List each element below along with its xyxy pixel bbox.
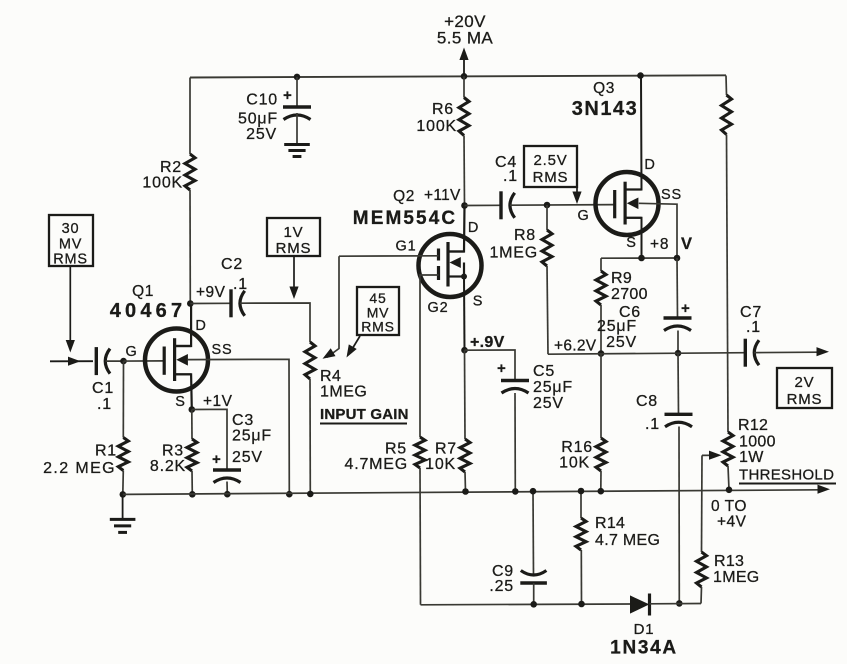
svg-text:+: + [681,300,691,317]
wire: drain node to C4 [465,204,502,206]
junction: Q1 source node [189,406,196,413]
resistor R7 [460,439,470,472]
svg-text:C2: C2 [221,256,243,273]
svg-text:1V: 1V [284,224,304,241]
wire: R2 to Q1 drain node [189,190,191,304]
wire: Q1 drain lead [175,304,192,347]
label +6.2V [554,338,597,355]
junction: Q2 source node +.9V [461,347,468,354]
svg-text:30: 30 [62,221,80,237]
junction: Q3 source [638,255,645,262]
wire: R12 wiper [702,451,722,460]
label R3 [150,443,186,476]
svg-text:D: D [644,157,655,173]
label Q3 pin SS [661,187,682,203]
label Q2 pin G1 [396,239,417,255]
transistor Q1 symbol [145,329,208,392]
capacitor C6 [664,318,692,353]
svg-text:C1: C1 [92,380,114,397]
label C6 polarity + [681,300,691,317]
label R7 [425,441,457,474]
wire: detector line right segment [650,603,702,605]
svg-text:25V: 25V [533,395,564,412]
arrow from 2.5V RMS box to Q3 gate [572,187,581,204]
svg-text:2V: 2V [795,374,815,391]
label +20V [444,12,486,31]
junction: ground rail at R3 [189,491,196,498]
wire: +20V supply rail [190,75,726,77]
svg-text:.1: .1 [233,276,248,293]
wire: source node to C3 [192,409,227,470]
resistor R2 [185,154,195,190]
svg-text:INPUT GAIN: INPUT GAIN [320,406,409,423]
wire: detector line left segment [421,603,631,606]
wire: R13 to detector wire [700,587,703,604]
capacitor C10 [283,77,311,144]
label Q3 pin G [577,208,589,224]
label C9 value [489,563,514,595]
label R12 [738,417,776,466]
svg-text:4.7MEG: 4.7MEG [345,456,409,473]
label C10 polarity + [283,87,293,104]
wire: +6.2V down to R16 [600,354,602,438]
resistor R1 [118,438,128,471]
svg-text:C5: C5 [533,363,555,380]
label C10 value [238,92,278,144]
wire: tap down to R8 [546,205,548,230]
junction: Q2 drain node [461,202,468,209]
wire: source row down to C6 [676,258,679,318]
wire: C7 to output with arrow [754,347,829,356]
wire: source node to R3 [191,410,193,440]
junction: Q1 drain node [187,300,194,307]
svg-text:R12: R12 [738,417,768,434]
wire: source row down to R9 [600,258,602,271]
label THRESHOLD [739,467,836,484]
label R8 [489,227,538,262]
svg-text:RMS: RMS [53,252,88,268]
capacitor C8 [665,414,693,603]
resistor R3 [187,439,197,471]
junction: ground rail at SS [286,491,293,498]
label Q1 part number 40467 [110,300,187,322]
wire: rail down to R6 [463,76,465,97]
label R5 [345,441,409,474]
svg-text:+: + [212,451,222,468]
svg-text:+9V: +9V [196,284,226,301]
svg-text:R8: R8 [514,227,536,244]
svg-text:S: S [626,235,636,251]
wire: +6.2V down to C8 [677,353,680,414]
svg-text:S: S [175,394,185,410]
label +11V [424,187,461,204]
label R16 [559,439,593,472]
capacitor C7 [745,339,759,367]
resistor R8 [542,230,552,266]
junction: detector wire at R14 [578,601,585,608]
wire: Q2 gate2 lead [420,275,439,437]
svg-text:50μF: 50μF [238,111,278,128]
wire: R4 to ground rail [309,379,311,494]
svg-text:25μF: 25μF [533,379,573,396]
label C3 value [232,412,272,466]
annotation box 45 MV RMS [357,287,399,335]
power arrow +20V supply [459,48,468,77]
junction: Q1 gate node [120,358,127,365]
svg-text:1W: 1W [739,449,764,466]
label +.9V [470,334,505,351]
wire: Q3 substrate SS lead [639,203,677,258]
svg-text:RMS: RMS [533,169,569,186]
svg-text:40467: 40467 [110,300,187,322]
label R14 [595,515,660,549]
label Q1 pin SS [212,342,233,358]
svg-text:25V: 25V [246,126,277,143]
resistor R14 [576,518,586,550]
transistor Q2 symbol [419,234,482,297]
label 0 TO +4V [711,498,747,531]
svg-text:C8: C8 [636,393,658,410]
resistor R11 (unlabeled, top right) [722,95,732,135]
svg-text:0 TO: 0 TO [711,498,747,515]
svg-text:G2: G2 [428,300,449,316]
svg-text:R7: R7 [435,441,457,458]
label D1 part number 1N34A [610,638,678,659]
wire: Q3 source lead [625,218,641,258]
label C6 value [597,304,641,351]
wire: R12 to ground rail [728,466,729,490]
potentiometer R4 [305,342,315,379]
wire: C4 to Q3 gate [510,204,615,207]
wire: Q2 gate1 lead [339,255,439,257]
label C7 value [740,304,762,336]
diode D1 [630,594,650,616]
label 5.5 MA [437,29,494,48]
svg-text:10K: 10K [559,455,590,472]
arrow from 30 MV RMS box to input [66,266,75,353]
svg-text:3N143: 3N143 [572,98,638,120]
capacitor C5 [501,381,529,492]
label Q2 pin S [473,294,483,310]
svg-text:2.2 MEG: 2.2 MEG [43,460,116,477]
svg-text:4.7 MEG: 4.7 MEG [595,532,660,549]
svg-text:V: V [681,235,693,253]
junction: ground rail at R14 [578,488,585,495]
svg-text:5.5 MA: 5.5 MA [437,29,494,48]
wire: R12 wiper down to R13 [701,455,704,552]
svg-text:+8: +8 [650,236,669,253]
wire: right branch down to R12 [727,135,729,433]
svg-text:R9: R9 [611,270,632,287]
svg-text:SS: SS [661,187,682,203]
label INPUT GAIN [320,406,409,424]
wire: gate node down to R1 [122,361,124,437]
wire: source node down to R7 [464,350,467,439]
svg-text:R6: R6 [432,101,454,118]
wire: R14 to detector wire [580,550,582,604]
svg-text:10K: 10K [425,456,456,473]
svg-text:+: + [283,87,293,104]
junction: ground rail at R16 [598,488,605,495]
wire: +6.2V rail to C7 [548,353,745,355]
svg-text:.1: .1 [503,168,518,185]
svg-text:100K: 100K [416,118,457,135]
label R13 [713,553,760,586]
capacitor C2 [231,289,245,317]
wire: Q1 substrate SS to ground rail [188,359,289,494]
wire: drain node to C2 [190,302,231,304]
svg-text:R4: R4 [320,368,341,385]
label R9 [611,270,648,303]
svg-text:R14: R14 [595,515,625,532]
svg-text:C10: C10 [246,92,278,109]
junction: detector wire at C9 [530,601,537,608]
svg-text:SS: SS [212,342,233,358]
wire: signal input with arrow [50,357,93,366]
junction: rail and +20V feed [461,73,468,80]
wire: R3 to ground rail [191,471,193,494]
svg-text:R13: R13 [714,553,744,570]
svg-text:C3: C3 [232,412,254,429]
svg-text:1MEG: 1MEG [713,569,760,586]
label R1 [43,443,117,478]
wire: Q2 drain lead [448,206,465,252]
annotation box 30 MV RMS [49,215,93,268]
svg-text:25μF: 25μF [597,318,637,335]
label Q3 part number 3N143 [572,98,638,120]
svg-text:D: D [195,318,206,334]
junction: ground rail at R4 [307,491,314,498]
ground symbol (main) [110,494,136,532]
junction: source row and C6 [674,255,681,262]
svg-text:8.2K: 8.2K [150,458,186,475]
capacitor C3 [213,470,241,494]
svg-text:1MEG: 1MEG [320,384,367,401]
resistor R5 [415,437,425,468]
wire: Q3 source node row [601,257,677,259]
svg-text:25μF: 25μF [232,428,272,445]
svg-text:1MEG: 1MEG [489,245,538,262]
label D1 [634,621,655,638]
svg-text:25V: 25V [232,449,263,466]
junction: ground rail at C9 [530,488,537,495]
svg-text:R3: R3 [162,443,184,460]
resistor R6 [459,98,469,136]
junction: ground rail at C3 [224,491,231,498]
label +9V [196,284,226,301]
svg-text:1N34A: 1N34A [610,638,678,659]
resistor R16 [596,438,606,471]
svg-text:+6.2V: +6.2V [554,338,597,355]
svg-text:G: G [577,208,589,224]
junction: ground rail at R12 [726,487,733,494]
resistor R9 [596,271,606,305]
label C5 polarity + [497,360,507,377]
svg-text:R16: R16 [561,439,593,456]
wire: source node to C5 [465,350,516,381]
label R2 [142,159,183,192]
label C5 value [533,363,573,412]
capacitor C1 [96,347,110,375]
label R4 [320,368,367,401]
junction: ground rail at R1 [120,491,127,498]
svg-text:MEM554C: MEM554C [353,208,457,229]
label Q1 [132,283,154,300]
annotation box 2V RMS [777,368,832,408]
svg-text:25V: 25V [606,334,637,351]
svg-text:MV: MV [59,237,82,253]
svg-text:RMS: RMS [276,240,312,257]
wire: R6 to Q2 drain node [463,136,466,206]
label C4 value [495,154,518,185]
junction: detector wire at C8 [676,600,683,607]
svg-text:D1: D1 [634,621,655,638]
arrow from 45 MV RMS box to R4 wiper [347,336,361,358]
junction: rail and Q3 drain [637,72,644,79]
junction: +6.2V at R9/R16 [598,350,605,357]
label C2 value [221,256,248,293]
wire: Q1 source lead [175,374,192,409]
svg-text:D: D [468,220,479,236]
label Q2 pin G2 [428,300,449,316]
capacitor C9 [520,571,547,605]
svg-text:R1: R1 [95,443,117,460]
label Q1 pin G [125,344,137,360]
annotation box 2.5V RMS [524,146,577,187]
svg-text:S: S [473,294,483,310]
label C8 value [636,393,660,433]
wire: rail down right branch [725,76,728,96]
label +1V [203,393,233,410]
ground symbol under C10 [284,145,310,157]
svg-text:R5: R5 [385,441,407,458]
label Q2 [393,188,415,205]
label Q2 part number MEM554C [353,208,457,229]
wire: gate node to Q1 gate [124,360,165,362]
wire: R4 wiper [323,256,340,359]
svg-text:.1: .1 [746,319,761,336]
wire: ground rail down to C9 [532,491,535,576]
label Q1 pin D [195,318,206,334]
svg-text:+1V: +1V [203,393,233,410]
wire: ground rail down to R14 [580,491,582,518]
svg-text:100K: 100K [142,175,183,192]
svg-text:2.5V: 2.5V [533,152,567,169]
label Q1 pin S [175,394,185,410]
svg-text:THRESHOLD: THRESHOLD [739,467,834,484]
svg-text:.1: .1 [97,396,112,413]
label C3 polarity + [212,451,222,468]
svg-text:+11V: +11V [424,187,461,204]
wire: rail down to R2 [189,78,191,155]
wire: ground rail (bottom) [123,485,830,495]
potentiometer R12 [723,432,733,466]
svg-text:+: + [497,360,507,377]
junction: rail and C10 [294,74,301,81]
transistor Q3 symbol [596,172,659,235]
annotation box 1V RMS [267,218,320,257]
resistor R13 [697,552,707,587]
svg-text:Q1: Q1 [132,283,154,300]
label R6 [416,101,457,135]
svg-text:.1: .1 [645,416,660,433]
label Q3 pin S [626,235,636,251]
arrow from 1V RMS box to wire [289,256,298,299]
svg-text:RMS: RMS [361,319,395,335]
wire: R7 to ground rail [464,472,467,492]
wire: C2 to R4 top [240,303,310,342]
label Q2 pin D [468,220,479,236]
svg-text:+4V: +4V [717,514,747,531]
wire: C1 to Q1 gate node [106,360,124,362]
wire: R9 to +6.2V rail [600,305,602,354]
svg-text:Q2: Q2 [393,188,415,205]
svg-text:G: G [125,344,137,360]
svg-text:1000: 1000 [739,434,776,451]
junction: ground rail at R7 [462,488,469,495]
junction: ground rail at C5 [512,488,519,495]
svg-text:2700: 2700 [611,286,648,303]
junction: +6.2V at C6 [675,350,682,357]
capacitor C4 [501,191,515,219]
svg-text:.25: .25 [489,578,514,595]
svg-text:+.9V: +.9V [470,334,505,351]
wire: Q2 source lead [463,277,466,351]
svg-text:R2: R2 [160,159,182,176]
svg-text:G1: G1 [396,239,417,255]
wire: Q3 drain lead [625,76,641,190]
label Q3 pin D [644,157,655,173]
svg-text:RMS: RMS [787,391,823,408]
label C1 value [92,380,114,413]
label +8 V [650,235,693,253]
wire: R16 to ground rail [600,471,602,491]
wire: R5 down to detector wire [419,468,422,605]
svg-text:Q3: Q3 [593,80,615,97]
label Q3 [593,80,615,97]
junction: R8 tap [544,202,551,209]
wire: R1 to ground rail [122,471,125,495]
wire: R8 to +6.2V rail [547,266,548,354]
